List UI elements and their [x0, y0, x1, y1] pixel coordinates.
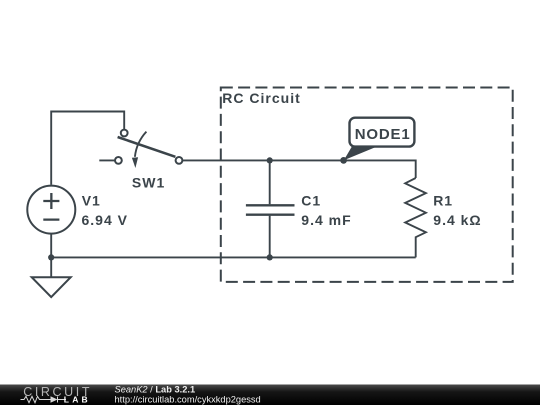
switch SW1 blade — [118, 137, 176, 157]
node NODE1 dot — [340, 157, 347, 164]
capacitor C1 — [269, 160, 271, 257]
switch SW1 left float terminal wire — [99, 159, 115, 161]
switch SW1 left terminal — [115, 157, 122, 164]
switch SW1 top terminal — [121, 130, 128, 137]
node NODE1 flag tail — [344, 146, 377, 161]
wire V1 bottom to ground node — [50, 234, 52, 277]
svg-text:SW1: SW1 — [132, 175, 165, 191]
svg-text:V1: V1 — [82, 192, 101, 208]
svg-text:C1: C1 — [301, 192, 321, 208]
svg-text:NODE1: NODE1 — [355, 126, 411, 143]
svg-text:RC Circuit: RC Circuit — [222, 90, 300, 106]
bottom wire (ground rail) — [51, 256, 416, 258]
svg-text:9.4 kΩ: 9.4 kΩ — [433, 212, 481, 228]
junction cap bottom — [267, 254, 273, 260]
switch SW1 arrowhead — [132, 157, 138, 168]
ground — [32, 277, 71, 297]
node NODE1 flag box — [350, 118, 415, 147]
wire switch to resistor top — [182, 160, 415, 178]
svg-text:LAB: LAB — [64, 394, 91, 404]
switch SW1 motion arc — [135, 132, 147, 157]
footer bar — [0, 385, 540, 405]
junction cap top — [267, 157, 273, 163]
svg-text:R1: R1 — [433, 192, 453, 208]
RC Circuit dashed box — [221, 88, 513, 282]
footer logo squiggle wire — [21, 396, 67, 402]
svg-text:http://circuitlab.com/cykxkdp2: http://circuitlab.com/cykxkdp2gessd — [115, 395, 261, 405]
voltage source V1 — [27, 186, 75, 234]
switch SW1 right terminal — [176, 157, 183, 164]
svg-text:9.4 mF: 9.4 mF — [301, 212, 351, 228]
footer logo diode triangle — [51, 396, 58, 403]
resistor R1 — [405, 178, 426, 257]
svg-text:SeanK2 / Lab 3.2.1: SeanK2 / Lab 3.2.1 — [115, 384, 196, 394]
junction ground node — [48, 254, 54, 260]
svg-text:6.94 V: 6.94 V — [82, 212, 128, 228]
wire V1 top to switch top terminal — [51, 112, 124, 185]
